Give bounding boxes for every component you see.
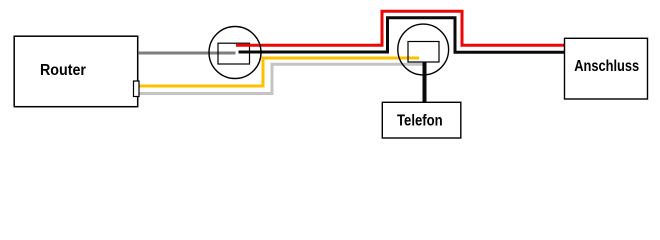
- svg-text:Router: Router: [40, 62, 86, 79]
- svg-text:Anschluss: Anschluss: [574, 58, 639, 75]
- svg-text:Telefon: Telefon: [397, 112, 443, 129]
